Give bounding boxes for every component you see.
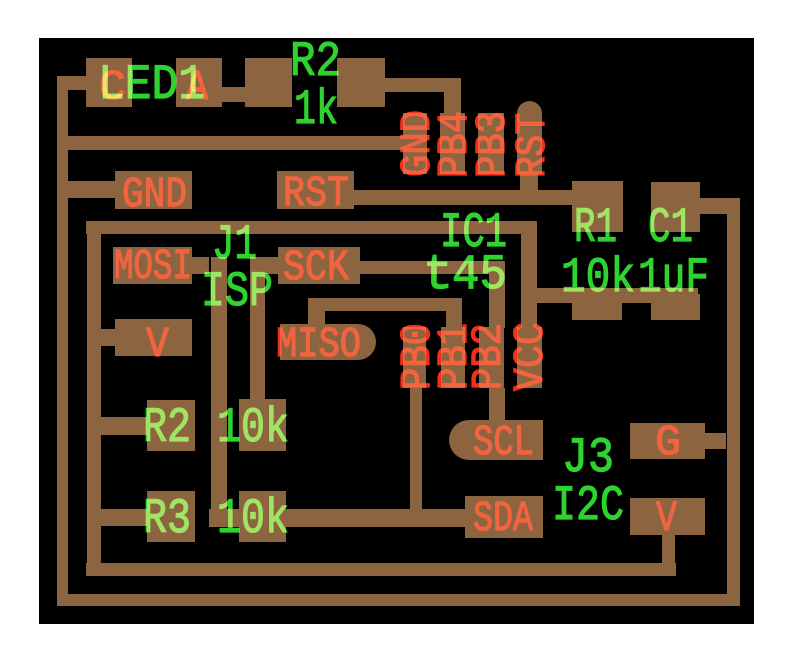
resistor R2 10k pullup pad 2 (239, 399, 286, 451)
wire: R2 pullup left stub (101, 417, 148, 435)
header J1 pad MOSI (113, 247, 192, 284)
wire: bottom V trace (86, 563, 676, 576)
IC U1 pin PB2 pad (479, 327, 504, 388)
LED LED1 pad C (86, 58, 132, 107)
svg-text:LED1: LED1 (98, 57, 205, 113)
svg-text:ISP: ISP (201, 264, 273, 320)
wire: IC1 RST pin stub (520, 173, 538, 192)
wire: GND trace to IC1 GND pin (57, 136, 408, 150)
svg-text:VCC: VCC (506, 322, 555, 391)
wire: SDA horizontal trace (209, 509, 467, 527)
IC U1 pin PB0 pad (403, 327, 426, 388)
svg-text:C1: C1 (648, 200, 693, 256)
wire: bottom GND trace (57, 594, 740, 606)
header J1 pad RST (277, 171, 354, 209)
LED LED1 pad A (176, 58, 222, 107)
wire: outer GND left vertical (57, 76, 68, 606)
wire: J3 G pad stub to GND rail (705, 433, 726, 449)
wire: SCK to PB2 horizontal (352, 261, 505, 274)
capacitor C1 1uF bottom pad (651, 294, 700, 320)
svg-text:G: G (655, 418, 681, 467)
wire: J1 GND pad stub (60, 181, 118, 198)
svg-text:V: V (656, 494, 677, 543)
svg-text:I2C: I2C (552, 478, 624, 534)
wire: SCK pad left stub (259, 257, 280, 274)
resistor R3 10k pullup pad 1 (147, 491, 195, 542)
resistor R3 10k pullup pad 2 (239, 491, 286, 542)
wire: PB2 to SCL vertical (489, 388, 505, 422)
resistor R1 10k top pad (572, 181, 623, 232)
wire: MOSI pad stub (190, 257, 209, 274)
wire: R3 pullup left stub (101, 509, 148, 526)
wire: R2 to PB4 horizontal (383, 78, 461, 92)
IC U1 pin PB3 pad (478, 113, 504, 174)
wire: LED1 anode to R2 (222, 87, 246, 102)
svg-text:RST: RST (508, 113, 557, 178)
header J3 pad G (630, 423, 705, 459)
wire: R2 to PB4 vertical (444, 78, 461, 116)
svg-text:t: t (423, 247, 453, 303)
svg-text:GND: GND (122, 170, 187, 219)
resistor R2 10k pullup pad 1 (147, 400, 195, 451)
resistor R2 1k pad 1 (245, 58, 292, 107)
svg-text:MOSI: MOSI (114, 242, 192, 291)
wire: J1 V pad stub (99, 329, 117, 346)
IC U1 pin GND pad (403, 113, 427, 174)
svg-text:SDA: SDA (473, 494, 533, 543)
svg-text:10k: 10k (217, 491, 289, 547)
svg-text:10k: 10k (561, 250, 635, 306)
wire: C1 top pad stub to GND rail (700, 198, 728, 214)
board background (39, 38, 754, 624)
svg-text:SCK: SCK (283, 243, 349, 292)
wire: LED1 cathode stub to GND rail (57, 76, 87, 90)
wire: MISO pad stub up (308, 298, 325, 326)
wire: PB0 vertical to SDA trace (410, 388, 422, 527)
header J3 pad V (630, 498, 705, 535)
svg-text:R2: R2 (143, 400, 191, 456)
svg-text:MISO: MISO (276, 320, 361, 369)
svg-text:R1: R1 (574, 200, 617, 256)
header J1 pad MISO (rounded right) (280, 324, 376, 360)
wire: SCL vertical SCK to R2 pullup (250, 257, 265, 402)
svg-text:45: 45 (452, 247, 507, 303)
wire: inner V rail vertical (87, 221, 101, 576)
svg-text:R3: R3 (143, 491, 191, 547)
IC U1 pin RST pad (pin 1, rounded top) (517, 101, 542, 174)
resistor R2 1k pad 2 (337, 58, 385, 107)
wire: MISO to PB1 vertical (446, 298, 462, 328)
svg-text:1uF: 1uF (638, 250, 709, 306)
wire: J3 V pad stub (662, 535, 675, 576)
svg-text:SCL: SCL (473, 418, 534, 467)
header J1 pad SCK (278, 247, 360, 284)
header J3 pad SDA (465, 496, 543, 538)
wire: SCK to PB2 vertical (489, 261, 505, 328)
wire: MOSI vertical to R3 pullup (211, 257, 227, 527)
IC U1 pin PB1 pad (441, 327, 465, 388)
header J3 pad SCL (rounded left) (449, 420, 543, 460)
svg-text:1k: 1k (294, 82, 338, 138)
svg-text:V: V (146, 320, 169, 369)
wire: VCC branch to R1 C1 bottom pads (521, 288, 698, 303)
wire: MISO to PB1 horizontal (308, 298, 462, 311)
wire: VCC vertical to IC1 VCC pin (521, 221, 537, 328)
resistor R1 10k bottom pad (572, 294, 622, 320)
capacitor C1 1uF top pad (651, 182, 700, 232)
IC U1 pin VCC pad (517, 327, 542, 388)
IC U1 pin PB4 pad (440, 113, 465, 174)
wire: VCC horizontal trace (86, 221, 537, 234)
svg-text:RST: RST (283, 169, 349, 218)
wire: RST trace J1 to R1 (348, 190, 575, 205)
header J1 pad GND (115, 171, 192, 209)
wire: right GND rail vertical (727, 198, 740, 606)
header J1 pad V (115, 319, 192, 356)
svg-text:10k: 10k (217, 400, 289, 456)
